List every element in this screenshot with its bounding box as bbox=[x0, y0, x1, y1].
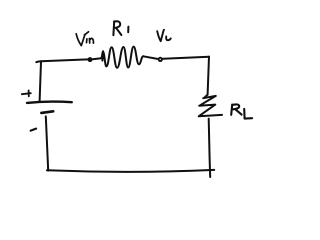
wire top from left corner to node Vin bbox=[41, 59, 87, 61]
battery plus sign bbox=[22, 90, 31, 96]
battery short plate (-) bbox=[41, 111, 53, 113]
label VL bbox=[157, 30, 171, 41]
node Vin junction dot bbox=[88, 57, 93, 62]
wire node VL to top-right corner bbox=[163, 57, 209, 59]
wire resistor R1 to node VL bbox=[143, 56, 157, 59]
wire right vertical upper (corner to RL) bbox=[208, 57, 209, 95]
resistor R1 start tick bbox=[101, 51, 104, 60]
label Vin bbox=[76, 32, 93, 46]
wire node Vin to resistor R1 bbox=[93, 58, 105, 59]
resistor RL vertical zigzag body bbox=[199, 95, 222, 117]
wire RL lead down to bottom wire (with overshoot) bbox=[209, 119, 211, 177]
wire bottom from left corner to right bbox=[47, 170, 214, 172]
wire left vertical lower (battery - to bottom wire) bbox=[46, 116, 48, 170]
resistor R1 zigzag body bbox=[101, 47, 143, 68]
battery long plate (+) bbox=[27, 102, 72, 103]
label R1 bbox=[113, 21, 128, 35]
wire top-left overshoot tick bbox=[36, 60, 41, 63]
label RL bbox=[231, 104, 252, 118]
battery minus sign bbox=[31, 129, 36, 131]
wire left vertical upper (corner to battery +) bbox=[40, 62, 41, 102]
node VL junction dot bbox=[158, 57, 163, 62]
